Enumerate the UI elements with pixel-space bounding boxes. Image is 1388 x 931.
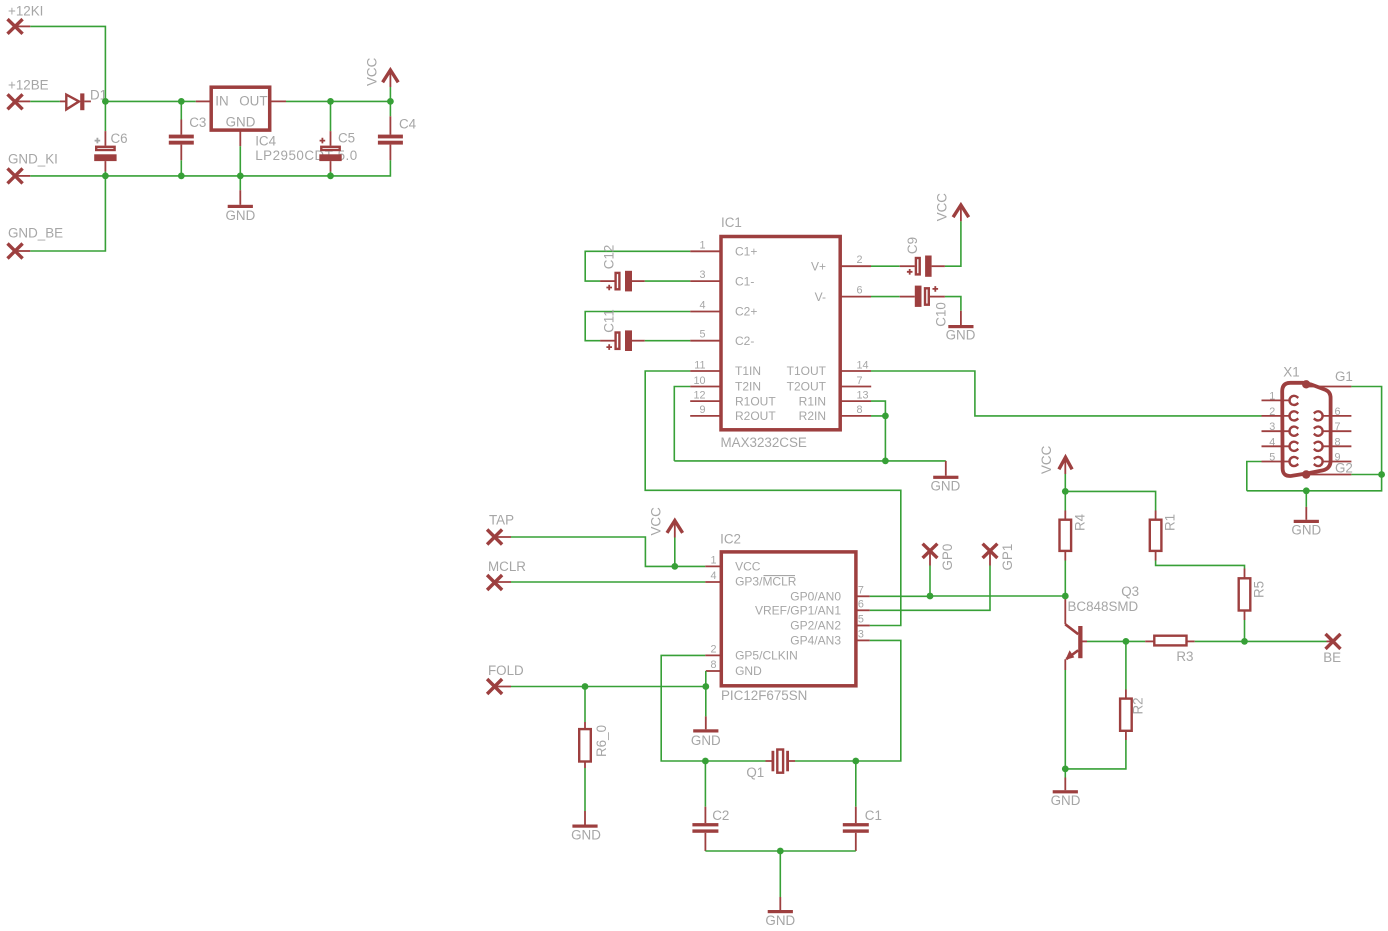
svg-text:BE: BE bbox=[1323, 650, 1341, 665]
pin 12 R1OUT bbox=[690, 400, 721, 402]
svg-text:TAP: TAP bbox=[489, 512, 514, 527]
svg-text:C5: C5 bbox=[338, 131, 355, 146]
svg-text:11: 11 bbox=[694, 359, 705, 371]
capacitor C11 (polarized) bbox=[585, 312, 690, 341]
wire R5/R3 junction to BE bbox=[1245, 640, 1327, 642]
junction (780.3,851) bbox=[777, 848, 784, 855]
svg-text:5: 5 bbox=[858, 614, 864, 626]
svg-text:GND: GND bbox=[691, 733, 721, 748]
svg-text:3: 3 bbox=[858, 628, 864, 640]
pin 5 GP2/AN2 bbox=[856, 625, 870, 627]
junction (105.4,175.9) bbox=[102, 173, 109, 180]
wire R2IN junction bbox=[871, 416, 885, 461]
wire GP5 to crystal bbox=[661, 655, 765, 761]
wire Q3 base to R3 bbox=[1083, 640, 1088, 642]
svg-text:LP2950CDT-5.0: LP2950CDT-5.0 bbox=[255, 148, 358, 163]
IC IC1 MAX3232CSE bbox=[721, 237, 840, 430]
pin 8 R2IN bbox=[840, 415, 871, 417]
svg-text:T1IN: T1IN bbox=[735, 364, 761, 378]
wire D1 to IC4 IN bbox=[105, 100, 195, 102]
svg-text:9: 9 bbox=[699, 404, 705, 416]
capacitor C2 bbox=[704, 761, 706, 807]
svg-text:C11: C11 bbox=[602, 309, 617, 333]
svg-text:GND: GND bbox=[1051, 793, 1081, 808]
capacitor C1 bbox=[855, 761, 857, 807]
pin 3 GP4/AN3 bbox=[856, 639, 870, 641]
svg-text:GP5/CLKIN: GP5/CLKIN bbox=[735, 649, 798, 663]
ground symbol for receiver net bbox=[945, 461, 947, 476]
junction (105.4,101.4) bbox=[102, 98, 109, 105]
svg-text:4: 4 bbox=[1269, 436, 1275, 448]
svg-text:MCLR: MCLR bbox=[488, 559, 526, 574]
svg-text:3: 3 bbox=[699, 269, 705, 281]
pin 8 GND bbox=[706, 670, 722, 672]
svg-text:GP3/MCLR: GP3/MCLR bbox=[735, 574, 797, 588]
svg-text:7: 7 bbox=[858, 584, 864, 596]
svg-text:VCC: VCC bbox=[735, 560, 761, 574]
svg-text:7: 7 bbox=[857, 375, 863, 387]
capacitor C3 bbox=[180, 101, 182, 119]
svg-text:BC848SMD: BC848SMD bbox=[1068, 599, 1139, 614]
svg-text:1: 1 bbox=[710, 554, 716, 566]
wire crystal cap ground rail bbox=[705, 850, 855, 852]
svg-text:T2OUT: T2OUT bbox=[787, 380, 827, 394]
svg-text:GP0: GP0 bbox=[940, 544, 955, 571]
ground symbol under IC4 bbox=[239, 130, 241, 146]
svg-text:2: 2 bbox=[710, 643, 716, 655]
wire FOLD net bbox=[495, 686, 511, 688]
pin 7 bbox=[1321, 430, 1351, 432]
junction (855.8,761) bbox=[852, 758, 859, 765]
svg-text:IC4: IC4 bbox=[255, 134, 276, 149]
svg-text:12: 12 bbox=[693, 389, 705, 401]
svg-text:C10: C10 bbox=[934, 302, 949, 327]
pin 2 GP5/CLKIN bbox=[705, 654, 721, 656]
svg-text:R3: R3 bbox=[1176, 649, 1193, 664]
svg-text:GND: GND bbox=[226, 114, 256, 129]
svg-text:IC1: IC1 bbox=[721, 215, 742, 230]
svg-text:R2IN: R2IN bbox=[799, 409, 826, 423]
svg-text:GP4/AN3: GP4/AN3 bbox=[790, 634, 841, 648]
svg-text:GND_BE: GND_BE bbox=[8, 226, 63, 241]
ground symbol under C10 bbox=[960, 311, 962, 325]
svg-text:C4: C4 bbox=[399, 117, 417, 132]
svg-text:5: 5 bbox=[699, 329, 705, 341]
svg-text:C1-: C1- bbox=[735, 274, 754, 288]
ground symbol under X1 bbox=[1305, 491, 1307, 507]
svg-text:13: 13 bbox=[857, 389, 869, 401]
wire ground rail bbox=[15, 175, 30, 177]
wire IC4 OUT to VCC bbox=[270, 100, 286, 102]
overline MCLR bbox=[764, 575, 796, 577]
svg-text:PIC12F675SN: PIC12F675SN bbox=[721, 688, 807, 703]
svg-text:V-: V- bbox=[815, 290, 826, 304]
svg-text:T1OUT: T1OUT bbox=[787, 364, 827, 378]
svg-text:C6: C6 bbox=[111, 131, 128, 146]
junction (885.4,460.9) bbox=[882, 458, 889, 465]
pin 7 T2OUT (unconnected stub) bbox=[840, 386, 871, 388]
pin 1 C1+ bbox=[690, 250, 721, 252]
wire shield net to ground rail bbox=[1247, 475, 1382, 491]
svg-text:Q1: Q1 bbox=[746, 765, 764, 780]
pin 11 T1IN bbox=[690, 370, 721, 372]
svg-text:7: 7 bbox=[1335, 421, 1341, 433]
junction (1306.3,490.8) bbox=[1303, 487, 1310, 494]
svg-text:X1: X1 bbox=[1283, 365, 1299, 380]
wire G1 shield net bbox=[1351, 387, 1381, 475]
junction (1065.3,596) bbox=[1062, 593, 1069, 600]
svg-text:GND: GND bbox=[946, 328, 976, 343]
voltage regulator IC4 bbox=[211, 87, 270, 130]
svg-text:1: 1 bbox=[1269, 390, 1275, 402]
svg-text:G1: G1 bbox=[1335, 369, 1353, 384]
junction (1381.6,474.5) bbox=[1378, 471, 1385, 478]
svg-text:C1: C1 bbox=[865, 808, 882, 823]
svg-text:GP0/AN0: GP0/AN0 bbox=[790, 590, 841, 604]
svg-text:8: 8 bbox=[1335, 436, 1341, 448]
svg-text:C2: C2 bbox=[712, 808, 729, 823]
capacitor C4 bbox=[389, 101, 391, 116]
capacitor C12 (polarized) bbox=[585, 251, 690, 281]
pin 14 T1OUT bbox=[840, 370, 871, 372]
resistor R3 bbox=[1126, 640, 1145, 642]
svg-text:10: 10 bbox=[693, 375, 705, 387]
wire X1 pin 5 to ground rail bbox=[1247, 462, 1262, 491]
wire MCLR to pin 4 bbox=[495, 581, 511, 583]
svg-text:R2: R2 bbox=[1131, 697, 1146, 714]
svg-text:R1: R1 bbox=[1163, 514, 1178, 531]
svg-text:C2+: C2+ bbox=[735, 305, 757, 319]
svg-text:1: 1 bbox=[699, 239, 705, 251]
pin 9 R2OUT bbox=[690, 415, 721, 417]
wire GP4 to crystal bbox=[795, 640, 901, 761]
wire ground net horizontal bbox=[674, 460, 946, 462]
svg-text:OUT: OUT bbox=[239, 94, 267, 109]
svg-text:8: 8 bbox=[710, 659, 716, 671]
junction (390.4,101.4) bbox=[387, 98, 394, 105]
svg-text:GP1: GP1 bbox=[1000, 544, 1015, 571]
svg-text:GP2/AN2: GP2/AN2 bbox=[790, 619, 841, 633]
pin 2 bbox=[1262, 415, 1291, 417]
svg-text:C2-: C2- bbox=[735, 334, 754, 348]
wire T2IN to ground net bbox=[674, 387, 690, 461]
svg-text:C1+: C1+ bbox=[735, 245, 757, 259]
svg-text:C12: C12 bbox=[602, 245, 617, 270]
capacitor C9 (polarized) bbox=[871, 265, 900, 267]
svg-text:2: 2 bbox=[1269, 406, 1275, 418]
junction (930,596) bbox=[927, 593, 934, 600]
svg-text:+12KI: +12KI bbox=[8, 4, 43, 19]
pin G1 bbox=[1308, 386, 1351, 388]
capacitor C6 (polarized) bbox=[104, 101, 106, 131]
node BE bbox=[1327, 640, 1334, 642]
wire GP0 stub bbox=[929, 551, 931, 566]
junction (181.3,175.9) bbox=[178, 173, 185, 180]
pin 8 bbox=[1321, 445, 1351, 447]
wire R1IN down bbox=[871, 401, 885, 416]
pin 7 GP0/AN0 bbox=[856, 595, 870, 597]
vcc symbol VCC (Q3 section) bbox=[1059, 457, 1072, 469]
svg-text:VCC: VCC bbox=[935, 193, 950, 222]
svg-text:R5: R5 bbox=[1252, 581, 1267, 598]
svg-text:C3: C3 bbox=[189, 115, 206, 130]
junction (885.4,415.9) bbox=[882, 413, 889, 420]
wire GP0 net pin7 to Q3 bbox=[870, 595, 1066, 597]
junction (1125.9,641.4) bbox=[1123, 638, 1130, 645]
wire pin8 GND / FOLD junction bbox=[705, 671, 707, 687]
ground symbol under R6_0 bbox=[584, 811, 586, 825]
wire +12KI to node bbox=[15, 25, 30, 27]
pin 4 GP3/MCLR bbox=[705, 581, 721, 583]
ground symbol under crystal caps bbox=[779, 851, 781, 897]
IC IC2 PIC12F675SN bbox=[721, 552, 856, 686]
svg-text:GND: GND bbox=[1291, 523, 1321, 538]
junction (1065.3,491.4) bbox=[1062, 488, 1069, 495]
svg-text:R4: R4 bbox=[1073, 513, 1088, 531]
resistor R4 bbox=[1064, 491, 1066, 510]
pin 6 V- bbox=[840, 296, 871, 298]
junction (705.8,686.5) bbox=[702, 683, 709, 690]
svg-text:3: 3 bbox=[1269, 421, 1275, 433]
wire G2 to shield net bbox=[1351, 474, 1381, 476]
pin 5 bbox=[1262, 461, 1291, 463]
junction (330.5,101.4) bbox=[327, 98, 334, 105]
node GP1 bbox=[983, 544, 998, 558]
wire GND_BE to rail bbox=[15, 250, 30, 252]
vcc symbol VCC (IC2) bbox=[674, 538, 676, 567]
junction (1065.3,768.9) bbox=[1062, 766, 1069, 773]
vcc symbol VCC (power rail) bbox=[389, 87, 391, 101]
wire GP1 to pin 6 bbox=[989, 551, 991, 566]
pin 13 R1IN bbox=[840, 400, 871, 402]
svg-text:MAX3232CSE: MAX3232CSE bbox=[721, 435, 807, 450]
svg-text:8: 8 bbox=[857, 404, 863, 416]
wire T1OUT to X1 pin 2 bbox=[871, 371, 1262, 416]
svg-text:FOLD: FOLD bbox=[488, 663, 524, 678]
svg-text:+12BE: +12BE bbox=[8, 78, 49, 93]
svg-text:GND: GND bbox=[571, 827, 601, 842]
resistor R2 bbox=[1125, 641, 1127, 689]
vcc symbol VCC (above C9) bbox=[960, 207, 962, 221]
wire T1IN net to GP2 bbox=[645, 371, 901, 626]
crystal Q1 bbox=[766, 760, 796, 762]
svg-text:VCC: VCC bbox=[1039, 445, 1054, 474]
svg-text:GND: GND bbox=[765, 913, 795, 928]
pin 6 bbox=[1321, 415, 1351, 417]
svg-text:V+: V+ bbox=[811, 259, 826, 273]
pin 4 C2+ bbox=[690, 311, 721, 313]
wire +12BE to D1 bbox=[15, 100, 30, 102]
svg-text:GND: GND bbox=[735, 664, 762, 678]
svg-text:14: 14 bbox=[857, 359, 869, 371]
svg-text:6: 6 bbox=[857, 285, 863, 297]
svg-text:VREF/GP1/AN1: VREF/GP1/AN1 bbox=[755, 604, 841, 618]
svg-text:GND_KI: GND_KI bbox=[8, 152, 58, 167]
resistor R1 bbox=[1155, 511, 1157, 520]
junction (705.4,761) bbox=[702, 758, 709, 765]
svg-text:GND: GND bbox=[226, 208, 256, 223]
svg-text:5: 5 bbox=[1269, 452, 1275, 464]
resistor R6_0 bbox=[584, 687, 586, 723]
pin 1 VCC bbox=[705, 565, 721, 567]
junction (1244.5,641.4) bbox=[1241, 638, 1248, 645]
capacitor C10 (polarized, mirrored) bbox=[871, 296, 900, 298]
svg-text:Q3: Q3 bbox=[1121, 584, 1139, 599]
svg-text:IN: IN bbox=[215, 94, 228, 109]
junction (330.5,175.9) bbox=[327, 173, 334, 180]
wire VCC to R1 bbox=[1065, 491, 1155, 510]
wire TAP to IC2 VCC bbox=[495, 536, 511, 538]
pin 10 T2IN bbox=[690, 386, 721, 388]
svg-text:4: 4 bbox=[710, 570, 716, 582]
junction (240.3,175.9) bbox=[237, 173, 244, 180]
capacitor C5 (polarized) bbox=[330, 101, 332, 131]
pin 6 VREF/GP1/AN1 bbox=[856, 609, 870, 611]
resistor R5 bbox=[1244, 569, 1246, 579]
pin 9 bbox=[1321, 461, 1351, 463]
pin 5 C2- bbox=[690, 340, 721, 342]
svg-text:VCC: VCC bbox=[365, 57, 380, 86]
svg-text:C9: C9 bbox=[905, 237, 920, 254]
svg-text:R1IN: R1IN bbox=[799, 394, 826, 408]
svg-text:R1OUT: R1OUT bbox=[735, 394, 776, 408]
svg-text:6: 6 bbox=[858, 598, 864, 610]
svg-text:R2OUT: R2OUT bbox=[735, 409, 776, 423]
svg-text:6: 6 bbox=[1335, 406, 1341, 418]
svg-text:GND: GND bbox=[931, 478, 961, 493]
pin G2 bbox=[1308, 474, 1351, 476]
svg-text:4: 4 bbox=[699, 300, 705, 312]
pin 3 bbox=[1262, 430, 1291, 432]
svg-text:R6_0: R6_0 bbox=[594, 725, 609, 757]
pin 1 bbox=[1262, 399, 1291, 401]
junction (585,686.5) bbox=[582, 683, 589, 690]
junction (181.3,101.4) bbox=[178, 98, 185, 105]
junction (674.8,566.4) bbox=[671, 563, 678, 570]
ground symbol under Q3 bbox=[1064, 769, 1066, 778]
ground symbol under pin 8 bbox=[705, 687, 707, 717]
svg-text:T2IN: T2IN bbox=[735, 380, 761, 394]
svg-text:IC2: IC2 bbox=[720, 532, 741, 547]
svg-text:9: 9 bbox=[1335, 452, 1341, 464]
pin 4 bbox=[1262, 445, 1291, 447]
pin 3 C1- bbox=[690, 280, 721, 282]
pin 2 V+ bbox=[840, 265, 871, 267]
node GP0 bbox=[923, 544, 938, 558]
diode D1 bbox=[60, 100, 66, 102]
svg-text:VCC: VCC bbox=[649, 507, 664, 536]
svg-text:2: 2 bbox=[857, 254, 863, 266]
